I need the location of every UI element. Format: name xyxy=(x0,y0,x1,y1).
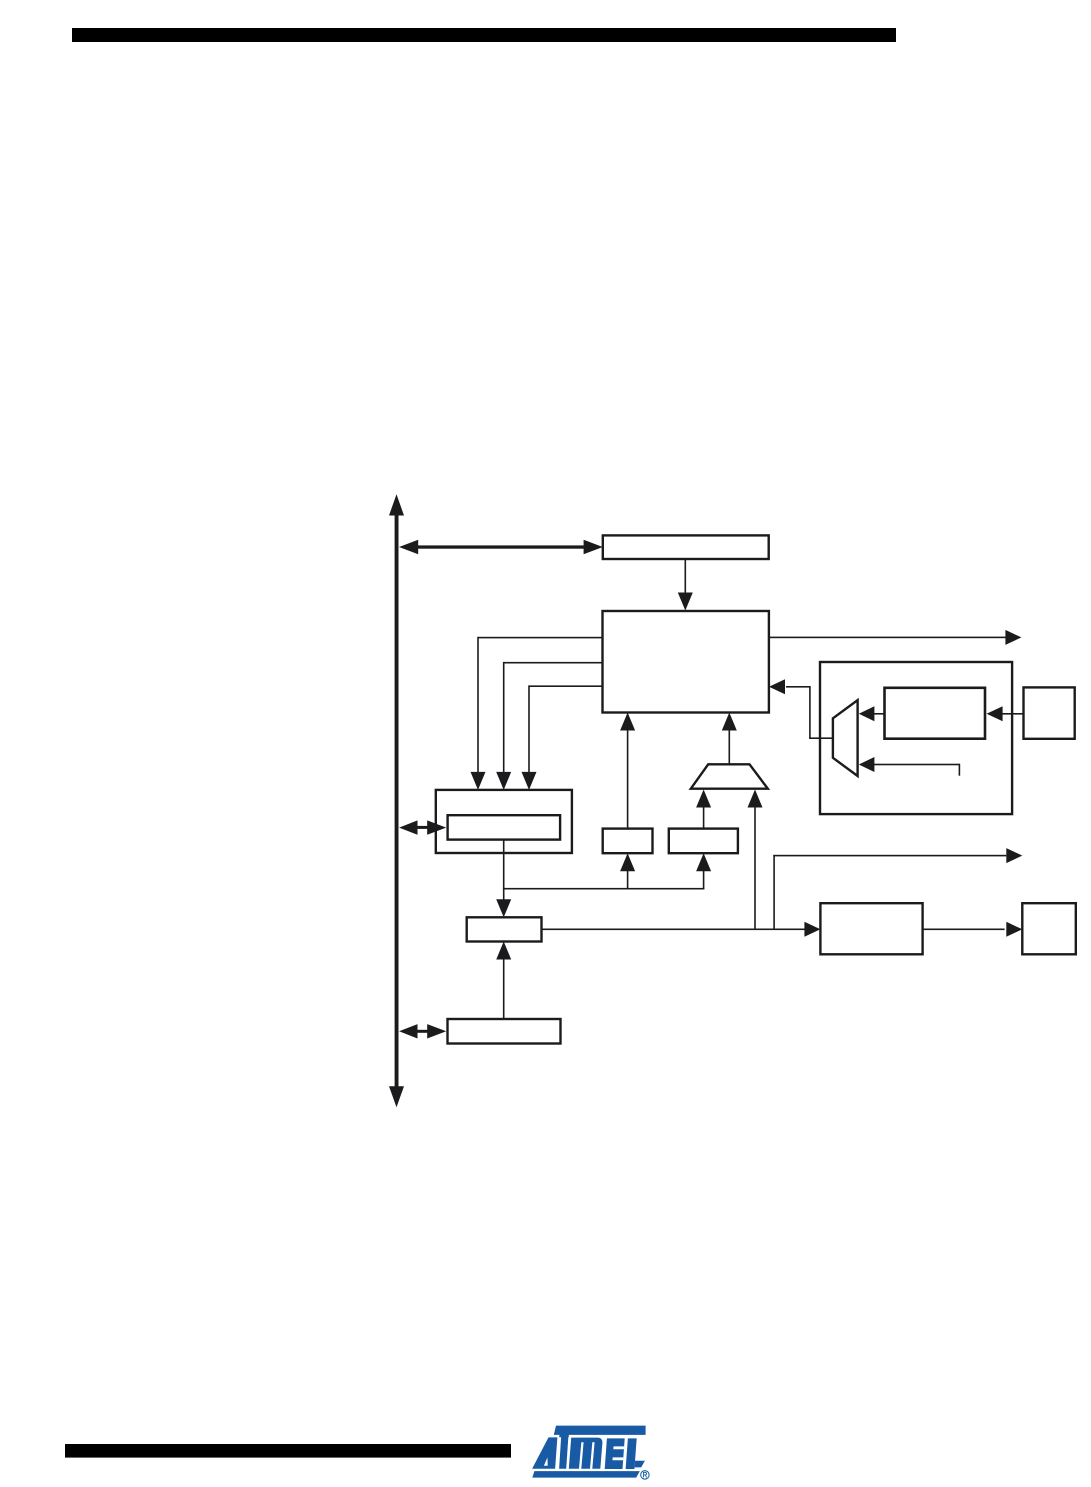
direction wire xyxy=(522,685,603,790)
bottom rule xyxy=(65,1444,511,1458)
top rule xyxy=(72,28,896,42)
Atmel logo xyxy=(532,1426,646,1478)
register box TCCRn xyxy=(603,535,769,559)
bus to TCCRn thick double arrow xyxy=(399,540,603,554)
logo letter A xyxy=(532,1437,557,1468)
logo letter E xyxy=(605,1438,625,1469)
data bus vertical line xyxy=(389,494,404,1107)
clock mux to control logic wire xyxy=(769,679,833,739)
wire top compare to waveform mux xyxy=(696,790,711,829)
clk wire zero-compare to control logic xyxy=(620,713,635,829)
count wire xyxy=(471,637,603,790)
buffer to OCRn wire xyxy=(496,942,511,1020)
wire TCCRn to control logic xyxy=(678,559,693,611)
interrupt branch wire xyxy=(773,848,1022,929)
bus to TCNTn thick double arrow xyxy=(399,820,446,834)
OCn pin square xyxy=(1022,903,1076,954)
bus to buffer thick double arrow xyxy=(399,1024,446,1038)
logo letter T xyxy=(559,1435,569,1438)
prescaler to clock mux arrow xyxy=(859,706,885,721)
logo letter L xyxy=(626,1438,637,1469)
logo top bar xyxy=(554,1426,646,1435)
clock select outer box xyxy=(820,662,1012,814)
counter outer box TCNTn xyxy=(436,790,572,853)
compare feed junction wire xyxy=(503,888,705,890)
waveform to output pin wire xyxy=(923,922,1023,937)
feedback wire into waveform mux xyxy=(748,790,763,931)
OCRn to waveform generation wire xyxy=(542,922,821,937)
clkIO wire into clock mux xyxy=(859,757,960,776)
buffer register box xyxy=(448,1019,561,1044)
zero compare box xyxy=(603,829,653,854)
TOVn overflow arrow xyxy=(769,630,1022,645)
logo letter M xyxy=(569,1438,603,1469)
output compare register OCRn xyxy=(467,917,542,941)
logo underline xyxy=(532,1471,640,1478)
waveform mux trapezoid xyxy=(691,764,768,788)
registered trademark symbol xyxy=(641,1471,649,1479)
clock mux output wire into control logic bottom xyxy=(722,713,737,765)
Tn to prescaler arrow xyxy=(987,706,1024,721)
waveform generation box xyxy=(820,903,922,954)
control logic box xyxy=(603,611,769,713)
wire into zero compare bottom xyxy=(620,853,635,889)
counter value inner register box xyxy=(448,815,560,839)
clear wire xyxy=(496,662,602,790)
wire into top compare bottom xyxy=(696,853,711,889)
top compare box xyxy=(669,829,738,854)
prescaler box xyxy=(885,688,986,739)
clock mux trapezoid xyxy=(833,700,858,776)
Tn pin square xyxy=(1024,687,1075,738)
TCNTn output wire down xyxy=(496,840,511,918)
